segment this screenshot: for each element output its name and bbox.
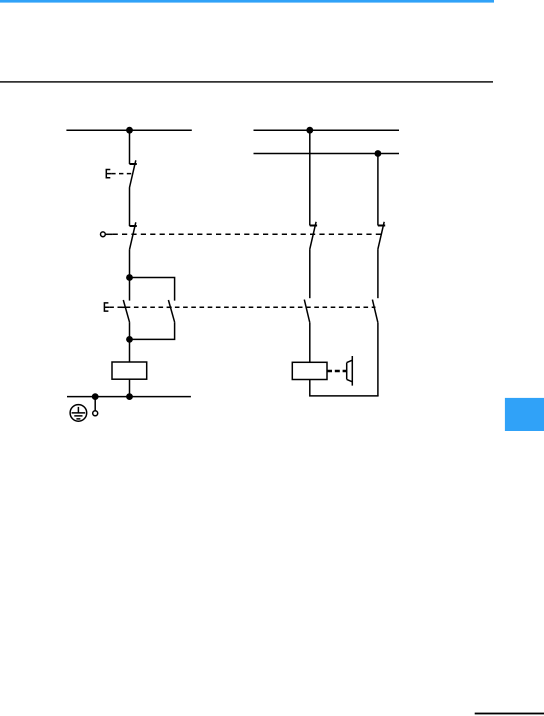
node: junction on bus R1 [306,127,313,134]
wire: coil K2 to bottom return [310,380,379,396]
wire: bus to switch S1 [129,130,131,164]
wire: left bottom bus [67,396,191,398]
node B: bottom of parallel branch [126,336,133,343]
buzzer/horn H1 [347,356,353,386]
terminal circle (remote actuation point) [101,232,106,237]
wire: S8 down to bottom return [377,323,379,396]
node A: top of parallel branch [126,274,133,281]
wire: node A down to S3 [129,278,131,301]
wire: right bus R2 [254,153,400,155]
wire: coil K1 to bottom bus [129,379,131,396]
mechanical link row 2 (dashed across to right branch) [109,306,375,308]
wire: S5 to S7 [309,249,311,298]
wire: S2 to node A [129,250,131,278]
coil K2 [292,362,327,379]
switch S5 (NC contact) [310,225,317,227]
mechanical link row 1 (dashed across to right branch) [106,233,113,235]
switch S1 (NC contact, manually actuated) [130,163,137,165]
coil K1 [112,362,147,379]
actuator E1 (manual control head) [106,170,111,178]
footer rule (bottom right) [475,713,544,715]
actuator E2 (manual control head) [104,303,109,311]
header horizontal rule [0,81,493,82]
wire: S7 to coil K2 [309,323,311,363]
wire: right top bus R1 [254,129,400,131]
wire: S6 to S8 [377,249,379,298]
wire: left top bus L1 [66,129,191,131]
node: PE tap on bottom bus [92,393,99,400]
wire: S1 to S2 [129,188,131,227]
node: junction on left bus [126,127,133,134]
wire: S3 to node B [129,322,131,339]
node: junction on bus R2 [375,150,382,157]
switch S6 (NC contact) [378,225,385,227]
switch S8 (NO contact) [372,300,378,323]
wire: node B to coil K1 [129,339,131,362]
wire: S4 down and across to node B [130,322,175,339]
switch S7 (NO contact) [304,300,310,323]
wire: bus R1 down to switch S5 [309,130,311,225]
blue section tab (right margin) [505,398,544,431]
switch S4 (NO contact, parallel) [168,300,174,322]
node: coil return on bottom bus [126,393,133,400]
wire: bus R2 down to switch S6 [377,154,379,226]
ground: protective earth symbol [70,405,87,422]
switch S2 (NC contact) [130,225,137,227]
top blue rule [0,0,494,3]
mechanical link coil K2 to horn (bold dashed) [327,370,347,373]
wire: branch to right contact S4 [130,278,175,301]
switch S3 (NO contact, manually actuated) [123,300,129,322]
wire: bus to earth terminal [94,397,96,411]
mechanical link E1 to S1 (dashed) [111,173,133,175]
terminal: earth connection point [93,411,98,416]
